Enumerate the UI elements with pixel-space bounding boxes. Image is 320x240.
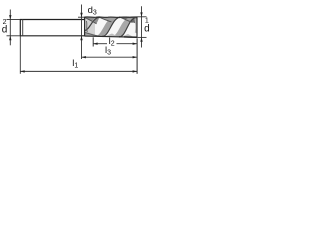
d2 dimension [7, 10, 20, 46]
l3 dimension [82, 56, 138, 58]
svg-text:1: 1 [145, 17, 149, 24]
svg-text:2: 2 [3, 19, 7, 26]
d3 dimension [78, 5, 85, 60]
flute shading: valley bands left of S-curves [85, 17, 137, 37]
l1 dimension [20, 36, 137, 74]
shank body (cylinder) [20, 19, 85, 36]
flute run-out detail [85, 21, 100, 36]
flute shading: bottom slivers [85, 32, 134, 38]
flute shading: braid zone wash [85, 17, 95, 36]
junction nodes [98, 16, 120, 37]
d1 dimension [137, 6, 147, 47]
flute body fill [85, 17, 137, 37]
svg-text:d: d [144, 24, 150, 35]
helix flute S-curves [85, 17, 135, 37]
l2 dimension [93, 37, 137, 46]
flute shading: top lenses [85, 17, 137, 24]
flute rake-face curves [85, 17, 133, 24]
flute outline [85, 17, 137, 38]
